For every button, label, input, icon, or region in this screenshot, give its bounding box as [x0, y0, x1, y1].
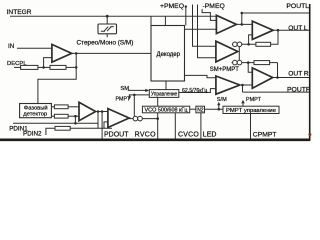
node junction PDIN1 tap — [97, 110, 100, 113]
svg-text:Стерео/Моно (S/M): Стерео/Моно (S/M) — [77, 40, 134, 47]
svg-text:детектор: детектор — [23, 112, 47, 118]
svg-text:+PMEQ: +PMEQ — [160, 3, 184, 10]
block decoder — [151, 26, 185, 82]
svg-text:62,5/76кГц: 62,5/76кГц — [182, 88, 207, 94]
wire R6 to loop — [232, 43, 256, 45]
svg-text:PMPT: PMPT — [246, 97, 262, 103]
svg-text:LED: LED — [203, 131, 217, 138]
resistor R4 — [54, 114, 68, 118]
svg-text:SM: SM — [120, 86, 129, 92]
node junction PDOUT tap — [101, 110, 104, 113]
svg-text:PDIN2: PDIN2 — [23, 131, 42, 138]
wire U5 feedback drop — [271, 30, 278, 44]
svg-text:CPMPT: CPMPT — [253, 131, 277, 138]
wire feedback to U1 inverting input — [44, 58, 52, 68]
svg-text:IN: IN — [8, 43, 14, 50]
wire OUT R feedback riser — [277, 63, 279, 78]
node OUT R feedback junction — [276, 76, 279, 79]
wire output down to phase detector path — [38, 53, 76, 103]
border bottom edge — [0, 139, 310, 142]
block divider N2 — [196, 106, 205, 113]
wire +PMEQ to decoder top — [185, 7, 187, 26]
wire CPMPT pin — [250, 114, 252, 139]
artifact red dot — [308, 133, 311, 136]
node junction on INTEGR above S/M box — [106, 15, 109, 18]
node POUTL junction — [241, 23, 244, 26]
resistor R2 feedback — [50, 65, 66, 69]
wire POUTR drop — [242, 85, 244, 92]
block VCO 500/608 kHz — [142, 106, 189, 113]
node junction R4 line — [74, 115, 77, 118]
wire R3 to amp — [68, 106, 79, 108]
svg-text:RVCO: RVCO — [135, 131, 157, 138]
wire U8 output to U7 lower input — [240, 84, 253, 86]
arrow PMPT up — [129, 95, 131, 99]
wire U1 output to decoder — [72, 52, 151, 54]
wire U4 output to U5 — [236, 23, 252, 25]
wire IN to input amp — [17, 47, 52, 49]
wire PDIN2 corner — [46, 128, 55, 135]
node U1 output junction — [75, 52, 78, 55]
wire PDIN1 line — [13, 122, 98, 124]
wire SM stub up — [218, 103, 220, 109]
svg-text:CVCO: CVCO — [178, 131, 199, 138]
op-amp U2 phase detector amp — [79, 102, 96, 120]
svg-text:N2: N2 — [197, 107, 204, 113]
resistor R1 DECPL — [21, 65, 38, 69]
resistor R5 PDIN2 — [55, 126, 70, 130]
resistor R7 OUT R feedback — [254, 61, 270, 65]
svg-text:S/M: S/M — [217, 97, 227, 103]
svg-text:SM+PMPT: SM+PMPT — [210, 67, 240, 73]
node junction PDIN1-vertical — [74, 122, 77, 125]
wire INTEGR rail — [10, 15, 216, 17]
wire POUTL riser — [241, 13, 243, 24]
wire loop to U5 inverting input — [249, 35, 253, 44]
block phase detector — [20, 104, 52, 118]
node POUTL top junction — [241, 12, 244, 15]
wire -PMEQ into U4 loop — [202, 9, 216, 20]
op-amp U8 PMPT amp — [216, 76, 240, 94]
wire R2 to output node — [66, 66, 76, 68]
svg-text:OUT R: OUT R — [288, 70, 309, 77]
wire OUT L line — [273, 29, 309, 31]
wire junction R4 node to PDIN1 — [74, 116, 76, 123]
svg-text:INTEGR: INTEGR — [7, 9, 32, 16]
wire loop to U7 input — [248, 63, 252, 73]
node OUT L feedback junction — [277, 29, 280, 32]
wire OUT R line — [273, 77, 309, 79]
op-amp U6 SM+PMPT — [216, 41, 238, 62]
wire vertical bus B — [198, 5, 216, 58]
svg-text:Декодер: Декодер — [157, 52, 181, 58]
wire R4 to amp — [68, 115, 79, 117]
svg-text:Фазовый: Фазовый — [24, 105, 48, 112]
resistor R3 — [54, 105, 68, 109]
wire PD to resistor R3 — [51, 106, 54, 108]
svg-text:PDOUT: PDOUT — [104, 131, 129, 138]
node PDOUT pin wire — [101, 112, 103, 139]
resistor R6 OUT L feedback — [256, 42, 271, 46]
node POUTR junction — [241, 84, 244, 87]
wire U2 to U3 — [96, 111, 108, 113]
node +PMEQ pin dot — [185, 5, 187, 7]
wire control to VCO — [157, 97, 159, 106]
svg-text:POUTL: POUTL — [286, 3, 309, 10]
wire INTEGR drop into decoder top — [151, 16, 165, 25]
switch link circles R — [232, 60, 255, 65]
op-amp U4 PMEQ left — [216, 15, 236, 33]
op-amp U5 OUT L — [252, 21, 273, 39]
wire POUTL line — [242, 12, 309, 14]
border right edge — [309, 4, 311, 140]
wire N2 to PMPT control box — [205, 108, 224, 110]
svg-text:Управление: Управление — [151, 92, 177, 98]
wire R1 to R2 — [38, 66, 50, 68]
comparator S/M hysteresis box — [98, 24, 117, 34]
switch link circles L — [233, 42, 242, 47]
wire CVCO pin — [174, 113, 176, 139]
svg-text:OUT L: OUT L — [288, 25, 308, 32]
wire SM arrow into control box — [128, 89, 146, 91]
wire R7 to riser — [270, 62, 278, 64]
node RVCO junction — [156, 117, 159, 120]
node loop junction L — [247, 43, 250, 46]
wire PD to resistor R4 — [51, 115, 54, 117]
arrow PMPT up from control box — [242, 101, 245, 106]
wire amp out tap down to PDIN2 line — [97, 112, 99, 129]
wire RVCO pin — [157, 113, 159, 139]
node feedback tap junction — [75, 66, 78, 69]
wire R5 to right — [70, 127, 112, 129]
wire stub INTEGR to S/M box — [106, 16, 108, 37]
wire up to U3 lower input — [104, 122, 108, 128]
node PMPT junction — [133, 94, 136, 97]
node SM junction on wire — [218, 108, 221, 111]
wire LED pin — [200, 113, 202, 139]
wire decoder out to U8 upper input — [185, 75, 216, 77]
op-amp U3 second PD amp — [108, 109, 129, 128]
wire PMPT tap down to PD output line — [133, 95, 135, 117]
wire VCO to N2 — [190, 108, 196, 110]
svg-text:POUTR: POUTR — [287, 87, 311, 94]
wire POUTR line — [243, 91, 310, 93]
switch link circles PD output — [129, 116, 158, 121]
wire vertical bus A — [193, 5, 216, 47]
wire U6 output split — [238, 47, 240, 61]
svg-text:PMPT управление: PMPT управление — [226, 108, 276, 114]
node loop junction R — [247, 61, 250, 64]
svg-text:-PMEQ: -PMEQ — [203, 3, 225, 10]
wire PMPT into control box — [129, 94, 150, 96]
node feedback junction — [42, 66, 45, 69]
wire control out to U8 lower input — [179, 89, 216, 93]
wire decoder bottom to control box — [165, 81, 167, 90]
op-amp U7 OUT R — [252, 68, 272, 88]
svg-text:VCO 500/608 кГц: VCO 500/608 кГц — [145, 107, 188, 113]
wire DECPL to resistor R1 — [14, 66, 21, 68]
block PMPT control — [223, 106, 279, 114]
wire decoder output stub — [185, 28, 217, 30]
block control (Upravlenie) — [149, 90, 179, 98]
op-amp U1 input amplifier — [52, 44, 72, 62]
